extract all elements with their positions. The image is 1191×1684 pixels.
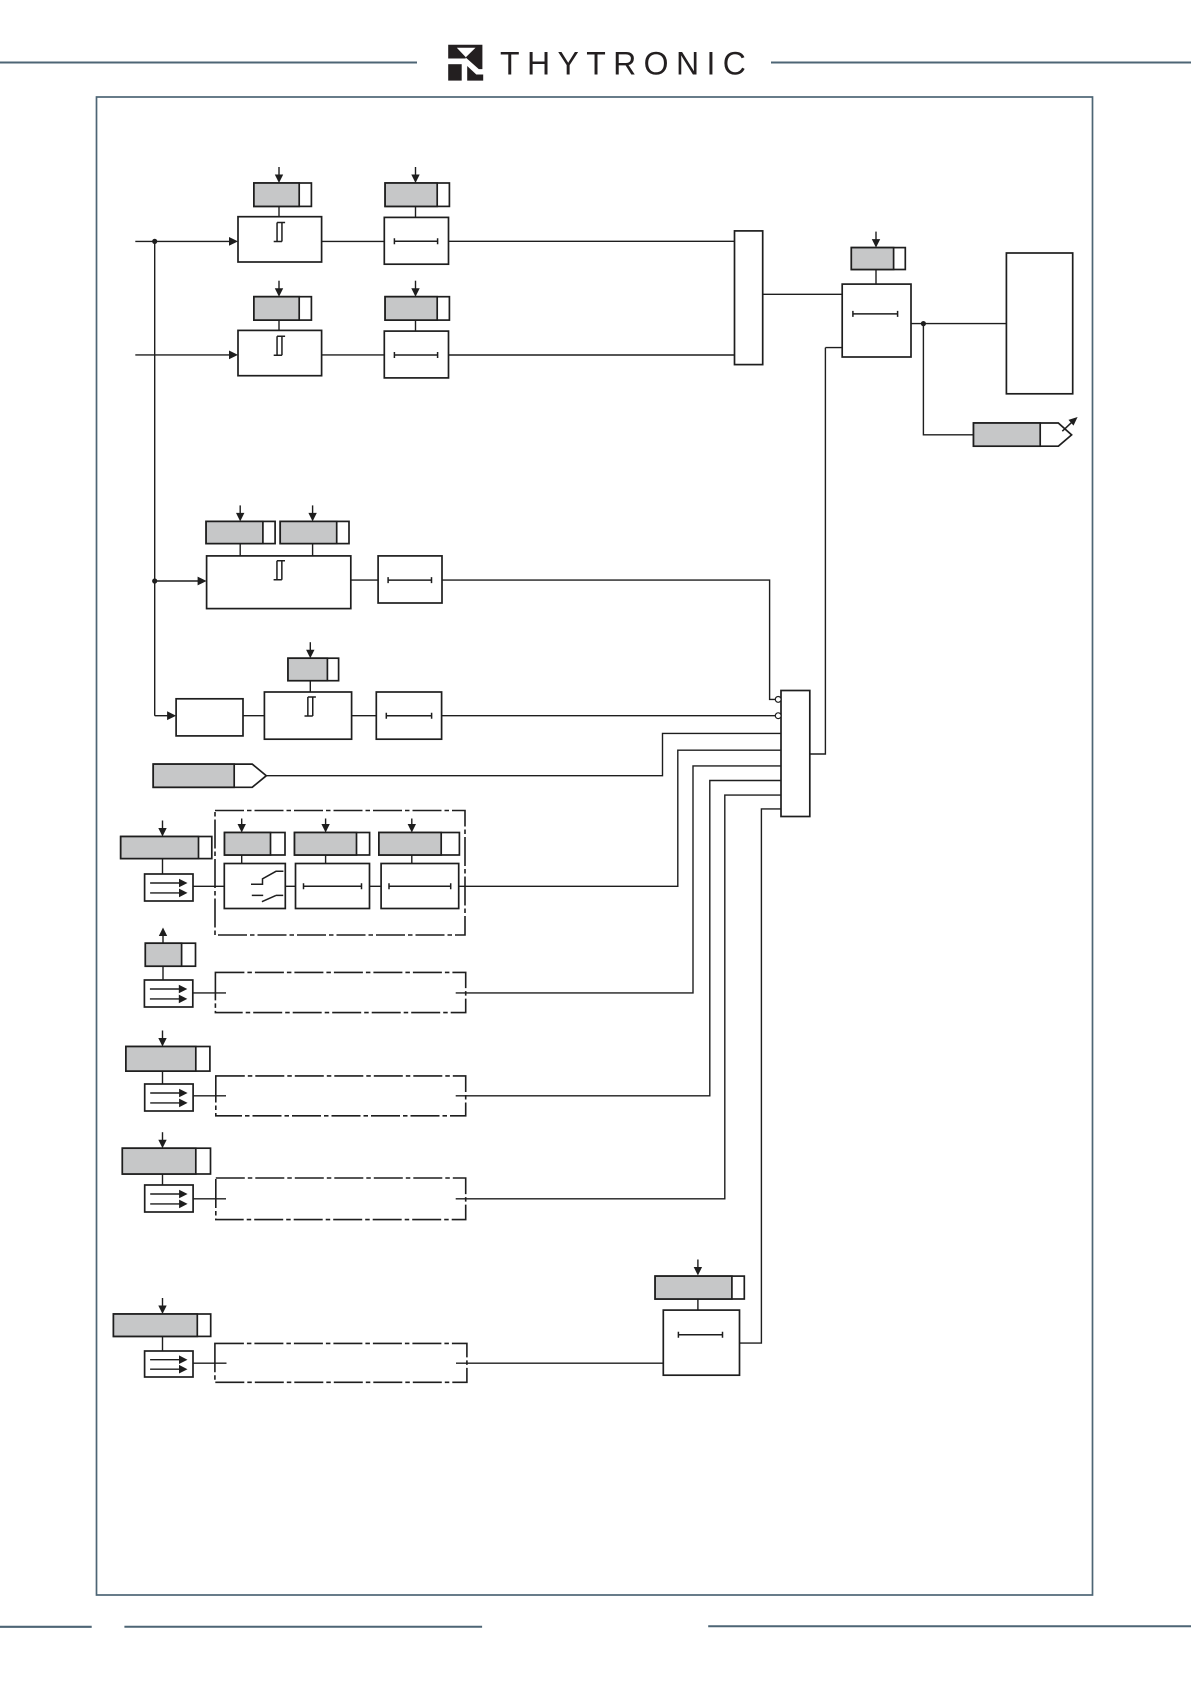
wire tagC to binary box bbox=[162, 1071, 164, 1084]
comparator block 1 bbox=[238, 217, 322, 262]
timer symbol 4 bbox=[386, 713, 431, 719]
arrow setting tag 1a bbox=[278, 167, 280, 176]
arrow setting tag 2a bbox=[278, 281, 280, 290]
timer symbol 1 bbox=[394, 238, 437, 244]
inverter circle OR input2 bbox=[775, 713, 781, 719]
wire A2 to A3 bbox=[370, 885, 382, 887]
arrow setting tag 3b bbox=[312, 505, 314, 514]
wire comparator3 to timer3 bbox=[351, 579, 378, 581]
binary input box D bbox=[145, 1185, 193, 1212]
timer block A2 bbox=[296, 864, 370, 909]
wire trunk vertical bbox=[154, 241, 156, 715]
arrow setting tag 1b bbox=[415, 167, 417, 176]
timer symbol A3 bbox=[389, 883, 451, 889]
arrow setting tag AND bbox=[875, 232, 877, 241]
setting tag 2b bbox=[385, 297, 449, 320]
wire rowB to OR input5 bbox=[456, 766, 781, 993]
arrow setting tag A bbox=[162, 821, 164, 830]
wire tagA2 to timer bbox=[325, 855, 327, 864]
arrow setting tag E bbox=[162, 1298, 164, 1307]
wire input I1 bbox=[135, 240, 230, 242]
header rule left bbox=[0, 62, 417, 64]
setting tag D bbox=[122, 1148, 210, 1174]
logo icon bottom-right shape bbox=[467, 66, 483, 81]
trip flag arrow bbox=[1062, 423, 1071, 432]
wire tag1b to timer bbox=[415, 206, 417, 217]
arrowhead into comparator 2 bbox=[229, 351, 238, 360]
svg-text:THYTRONIC: THYTRONIC bbox=[500, 46, 753, 82]
diagram frame border bbox=[97, 97, 1093, 1595]
binary input box A bbox=[145, 874, 193, 901]
timer block 3 bbox=[378, 556, 442, 603]
setting tag 3b bbox=[280, 521, 349, 543]
wire rowA to OR input4 bbox=[459, 750, 781, 886]
wire binary box E stub bbox=[193, 1362, 227, 1364]
wire binary box A to function bbox=[193, 885, 224, 887]
timer block E bbox=[663, 1310, 739, 1375]
setting tag A2 bbox=[295, 833, 370, 856]
comparator block 2 bbox=[238, 330, 322, 375]
arrow setting tag C bbox=[162, 1031, 164, 1040]
comparator block 4 bbox=[264, 692, 351, 739]
wire tagA1 to switch block bbox=[241, 855, 243, 864]
AND timer block bbox=[842, 284, 911, 357]
setting tag 3a bbox=[206, 521, 275, 543]
setting tag 1a bbox=[254, 183, 312, 206]
wire tagB to binary box bbox=[162, 966, 164, 980]
wire trunk to comparator 3 bbox=[155, 580, 199, 582]
arrow tag A3 bbox=[411, 819, 413, 826]
timer block 4 bbox=[376, 692, 441, 739]
wire AND output bbox=[911, 323, 1006, 325]
binary input box C bbox=[145, 1084, 193, 1111]
wire tag1a to comparator bbox=[278, 206, 280, 216]
wire timer4 to OR input2 bbox=[442, 715, 776, 717]
wire comparator4 to timer4 bbox=[352, 715, 377, 717]
wire comparator2 to timer2 bbox=[322, 354, 385, 356]
header rule right bbox=[771, 62, 1191, 64]
footer rule middle bbox=[124, 1626, 482, 1628]
timer symbol 2 bbox=[394, 352, 437, 358]
collector box bbox=[735, 231, 763, 365]
wire down to trip flag bbox=[923, 324, 973, 435]
logo icon top band with notch bbox=[448, 45, 482, 69]
arrowhead into comparator 3 bbox=[198, 577, 207, 586]
wire input I2 bbox=[135, 354, 230, 356]
pre-filter box row4 bbox=[176, 699, 243, 736]
arrow setting tag D bbox=[162, 1132, 164, 1141]
wire binary box C stub bbox=[193, 1095, 226, 1097]
setting tag 2a bbox=[254, 297, 312, 320]
wire tag2a to comparator bbox=[278, 320, 280, 330]
switch block A1 bbox=[224, 864, 285, 909]
timer symbol AND bbox=[853, 311, 898, 317]
arrow setting tag 2b bbox=[415, 281, 417, 290]
setting tag 4 bbox=[288, 658, 339, 681]
timer symbol E bbox=[678, 1332, 722, 1338]
setting tag A1 bbox=[225, 833, 286, 856]
timer symbol A2 bbox=[304, 883, 362, 889]
arrowhead into comparator 1 bbox=[229, 237, 238, 246]
wire timer2 to collector bbox=[449, 354, 736, 356]
setting tag 1b bbox=[385, 183, 449, 206]
arrow setting tag 4 bbox=[309, 642, 311, 651]
timer block 2 bbox=[384, 331, 448, 378]
wire collector to AND timer bbox=[763, 293, 843, 295]
setting tag A bbox=[121, 837, 212, 859]
node input junction dot bbox=[152, 239, 157, 244]
wire rowD to OR input7 bbox=[456, 795, 781, 1199]
wire blocking flag to OR input3 bbox=[266, 733, 781, 775]
node trunk row3 dot bbox=[152, 578, 157, 583]
arrow up tag B bbox=[162, 935, 164, 944]
wire tagA to binary box bbox=[162, 859, 164, 874]
arrow tag A1 bbox=[241, 819, 243, 826]
step symbol comparator 1 bbox=[274, 223, 285, 242]
timer block A3 bbox=[381, 864, 459, 909]
wire tag2b to timer bbox=[415, 320, 417, 331]
setting tag E bbox=[113, 1314, 210, 1336]
wire timer3 to OR input1 bbox=[442, 580, 775, 699]
wire binary box D stub bbox=[193, 1198, 226, 1200]
dashed function box C bbox=[216, 1076, 466, 1116]
wire A1 to A2 bbox=[285, 885, 295, 887]
setting tag B bbox=[145, 943, 195, 966]
arrow setting tag E2 bbox=[697, 1260, 699, 1269]
setting tag C bbox=[126, 1047, 210, 1072]
wire OR output feedback bbox=[810, 348, 826, 754]
OR gate block bbox=[781, 691, 810, 817]
binary input box B bbox=[144, 980, 192, 1007]
arrow setting tag 3a bbox=[239, 505, 241, 514]
wire tag3b to comparator bbox=[312, 544, 314, 556]
switch symbol contacts bbox=[251, 871, 283, 901]
footer rule left bbox=[0, 1626, 92, 1628]
wire tagE to binary box bbox=[162, 1336, 164, 1351]
blocking input flag bbox=[153, 764, 266, 787]
setting tag AND bbox=[851, 248, 905, 270]
timer symbol 3 bbox=[388, 577, 431, 583]
wire tag3a to comparator bbox=[239, 544, 241, 556]
logo icon bottom-left square bbox=[448, 64, 462, 80]
wire rowE to timer E bbox=[456, 1362, 663, 1364]
footer rule right bbox=[708, 1625, 1191, 1627]
dashed function box B bbox=[215, 972, 465, 1012]
dashed function box A bbox=[215, 811, 465, 936]
setting tag E2 bbox=[655, 1276, 744, 1299]
step symbol comparator 3 bbox=[274, 561, 285, 580]
step symbol comparator 2 bbox=[274, 336, 285, 355]
binary input box E bbox=[145, 1351, 193, 1377]
wire prefilter to comparator 4 bbox=[243, 715, 264, 717]
dashed function box D bbox=[216, 1178, 466, 1220]
dashed function box E bbox=[215, 1343, 467, 1382]
wire timer1 to collector bbox=[449, 240, 736, 242]
wire timerE to OR input8 bbox=[740, 809, 782, 1343]
wire tagD to binary box bbox=[162, 1174, 164, 1185]
wire OR feedback into AND bbox=[825, 347, 842, 349]
trip output flag bbox=[974, 423, 1072, 446]
output matrix box bbox=[1006, 253, 1072, 394]
wire binary box B stub bbox=[193, 992, 226, 994]
wire tag4 to comparator bbox=[309, 681, 311, 692]
arrowhead into row4 box bbox=[167, 711, 176, 720]
wire tagA3 to timer bbox=[411, 855, 413, 864]
timer block 1 bbox=[384, 217, 448, 264]
wire rowC to OR input6 bbox=[456, 781, 781, 1096]
wire tagE2 to timer E bbox=[697, 1299, 699, 1310]
wire tag to AND timer bbox=[875, 270, 877, 285]
wire trunk to row4 bbox=[155, 715, 169, 717]
comparator block 3 bbox=[207, 556, 351, 609]
setting tag A3 bbox=[379, 833, 460, 856]
arrow tag A2 bbox=[325, 819, 327, 826]
wire comparator1 to timer1 bbox=[322, 240, 385, 242]
node AND output dot bbox=[921, 321, 926, 326]
inverter circle OR input1 bbox=[775, 697, 781, 703]
step symbol comparator 4 bbox=[305, 697, 316, 716]
